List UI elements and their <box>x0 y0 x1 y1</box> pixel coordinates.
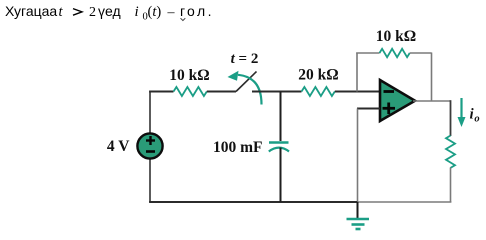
wire: feedback right vertical down to output <box>431 53 433 102</box>
wire: left vertical bottom (source bottom lead) <box>149 159 151 203</box>
source plus sign <box>146 139 155 141</box>
svg-text:Хугацаа: Хугацаа <box>5 3 57 19</box>
wire: capacitor branch vertical top <box>280 92 282 142</box>
source minus sign <box>146 150 155 153</box>
resistor 10 kΩ (feedback) zigzag <box>380 49 410 57</box>
switch opening arc arrow <box>238 75 262 105</box>
wire: top rail from R2 to op-amp inverting input <box>335 91 380 93</box>
svg-text:(t): (t) <box>148 4 162 20</box>
svg-text:20 kΩ: 20 kΩ <box>298 67 338 84</box>
resistor 10 kΩ (top left) zigzag <box>174 87 207 96</box>
ground symbol <box>357 202 359 219</box>
svg-text:г: г <box>180 3 185 19</box>
svg-text:10 kΩ: 10 kΩ <box>376 28 416 45</box>
svg-text:100 mF: 100 mF <box>213 139 263 156</box>
wire: top rail from left corner to resistor R1 <box>149 91 173 93</box>
svg-text:үед: үед <box>98 3 121 19</box>
voltage source Vs 4V <box>137 133 162 158</box>
svg-text:i: i <box>135 4 139 20</box>
wire: right branch vertical upper <box>450 100 452 136</box>
problem statement text <box>5 3 214 22</box>
svg-text:io: io <box>470 107 480 125</box>
wire: bottom rail left (source loop) <box>149 201 358 203</box>
svg-text:2: 2 <box>89 5 96 20</box>
svg-text:–: – <box>167 5 176 20</box>
wire: right branch vertical lower <box>450 168 452 203</box>
resistor 20 kΩ zigzag <box>302 87 335 96</box>
op-amp inverting input sign (−) <box>384 90 395 93</box>
capacitor 100 mF plates <box>269 141 289 144</box>
svg-text:4 V: 4 V <box>107 138 130 155</box>
spellcheck squiggle under г <box>181 18 186 20</box>
wire: non-inverting input vertical down to ground rail <box>357 109 359 203</box>
svg-text:t: t <box>59 4 64 20</box>
wire: bottom rail right (to load) <box>357 201 451 203</box>
resistor Ro (right, vertical) zigzag <box>446 136 455 168</box>
op-amp non-inverting input sign (+) <box>383 107 396 110</box>
wire: feedback left vertical <box>356 53 358 92</box>
wire: top rail from switch right contact to resistor R2 <box>252 91 302 93</box>
wire: capacitor branch vertical bottom <box>280 148 282 203</box>
wire: top rail from R1 to switch left contact <box>207 91 236 93</box>
svg-text:10 kΩ: 10 kΩ <box>169 67 209 84</box>
wire: feedback top right segment <box>410 52 432 54</box>
svg-text:t = 2: t = 2 <box>231 51 259 67</box>
current arrow io <box>460 98 462 119</box>
greater-than sign in statement <box>73 9 82 16</box>
wire: non-inverting input horizontal <box>357 108 380 110</box>
svg-text:ол.: ол. <box>187 3 214 19</box>
op-amp U1 <box>380 80 415 121</box>
switch blade t=2 <box>236 72 257 92</box>
wire: feedback top left segment <box>356 52 379 54</box>
wire: left vertical top (source top lead) <box>149 92 151 135</box>
wire: op-amp output horizontal <box>413 100 451 102</box>
